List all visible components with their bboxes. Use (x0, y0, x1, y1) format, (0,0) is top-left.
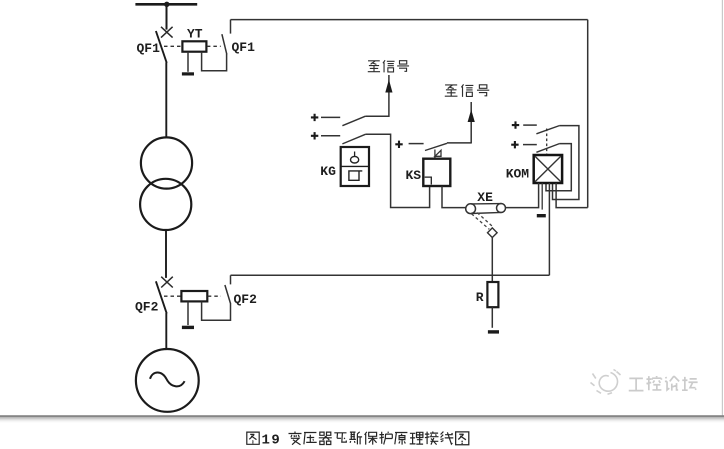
contact QF2 auxiliary blade (225, 285, 231, 303)
minus terminal below KOM (537, 214, 546, 217)
linkage dashes coil to QF2 aux (208, 295, 221, 297)
breaker QF1 cross mark (161, 27, 173, 38)
relay KOM box (534, 155, 562, 183)
svg-text:QF1: QF1 (232, 40, 256, 55)
caption figure number (247, 432, 259, 444)
panel right border (721, 0, 723, 416)
svg-text:XE: XE (477, 190, 493, 205)
wire coil right lead QF2 (202, 302, 231, 321)
wire KG contact 2 to KS coil (365, 134, 429, 207)
trip coil YT (182, 41, 206, 51)
plus terminal KOM row 2 (511, 141, 518, 148)
node junction dot on bus (164, 2, 169, 7)
wire KOM terminal 2 (minus lead) (541, 183, 543, 210)
wire KG contact 1 to signal arrow (365, 115, 389, 117)
breaker QF2 blade (156, 281, 167, 313)
text to-signal 1 (zhi xin hao) (368, 60, 409, 72)
wire down to KOM terminal 6 (587, 20, 589, 208)
breaker QF2 cross mark (161, 277, 173, 288)
svg-text:QF2: QF2 (135, 300, 159, 315)
wire plus to KOM contact 2 (523, 144, 537, 146)
trip coil of QF2 (181, 291, 207, 301)
plus terminal KG trip row (311, 132, 318, 139)
svg-text:R: R (476, 290, 484, 305)
KG float symbol (354, 152, 356, 157)
svg-text:QF2: QF2 (234, 292, 258, 307)
XE plug diamond (488, 228, 498, 238)
wire QF1 to transformer (165, 62, 167, 138)
XE open-link dashed lines (472, 213, 494, 230)
KG cup symbol (349, 171, 362, 180)
generator G circle (136, 349, 199, 412)
linkage dashes QF2 blade to trip coil (164, 295, 181, 297)
wire signal arrow 1 (388, 75, 390, 117)
wire KOM contact 2 to terminal 3 (546, 144, 571, 191)
wire QF1 aux fixed terminal (230, 20, 232, 34)
KG box divider (341, 165, 369, 167)
wire diamond to resistor R (491, 238, 493, 283)
wire plus to KOM contact 1 (523, 124, 537, 126)
wire KOM contact 1 to terminal 5 (553, 126, 579, 200)
transformer T winding 2 (140, 179, 191, 230)
linkage dashes YT to QF1 aux (207, 45, 221, 47)
linkage dashes QF1 blade to YT (164, 45, 182, 47)
contact KOM-2 blade (536, 144, 559, 153)
wire QF2 to generator (165, 313, 167, 350)
contact QF1 auxiliary blade (222, 34, 227, 54)
wire QF2 aux fixed terminal (230, 275, 232, 284)
watermark logo (591, 370, 621, 395)
plus terminal KG alarm row (311, 114, 318, 121)
bus bar (top supply) (135, 3, 197, 6)
arrowhead to signal 2 (468, 110, 475, 123)
svg-text:KG: KG (320, 164, 336, 179)
wire bus to QF1 (166, 4, 168, 29)
watermark text gongkong luntan (628, 375, 697, 390)
ground below YT (182, 72, 194, 75)
KS flag indicator (435, 150, 441, 159)
text to-signal 2 (zhi xin hao) (445, 84, 489, 96)
plus terminal KS row (395, 141, 402, 148)
wire coil left lead QF2 (187, 302, 189, 326)
signal relay KS box (423, 159, 450, 186)
wire KOM terminal 4 to QF2 trip bus (548, 183, 550, 275)
transformer T winding 1 (141, 137, 192, 188)
wire signal arrow 2 (470, 102, 472, 144)
connector XE right socket (497, 204, 506, 213)
KOM linkage dashes (546, 129, 548, 155)
wire transformer to QF2 (165, 230, 167, 278)
caption text: transformer gas protection principle wiring diagram (289, 432, 469, 445)
contact KG-1 blade (342, 116, 365, 126)
KOM box cross (535, 156, 561, 181)
minus terminal below R (488, 330, 499, 333)
KS inner notch (425, 177, 432, 184)
wire KOM terminal 1 to XE (506, 183, 539, 208)
wire R bottom lead (491, 307, 493, 328)
svg-text:YT: YT (187, 27, 203, 42)
wire plus to KG contact 1 (321, 116, 340, 118)
wire QF2 trip bus (horizontal) (231, 274, 550, 276)
connector XE link bars (471, 204, 502, 214)
arrowhead to signal 1 (385, 80, 392, 93)
connector XE left socket (466, 204, 476, 214)
ground below QF2 coil (182, 326, 194, 329)
wire KS contact to signal arrow 2 (447, 142, 471, 144)
contact KG-2 blade (342, 134, 365, 144)
wire KS right lead to XE (442, 186, 466, 207)
contact KS blade (425, 143, 447, 150)
wire plus to KS contact (409, 143, 424, 145)
contact KOM-1 blade (536, 126, 559, 134)
svg-text:KS: KS (406, 168, 422, 183)
wire YT right lead (202, 52, 227, 71)
svg-text:QF1: QF1 (137, 41, 161, 56)
panel bottom border line (0, 415, 724, 417)
wire QF1 trip bus (top horizontal) (231, 19, 588, 21)
svg-text:19: 19 (262, 432, 282, 448)
svg-text:KOM: KOM (506, 167, 530, 182)
wire YT left lead (187, 52, 189, 72)
plus terminal KOM row 1 (512, 121, 519, 128)
wire plus to KG contact 2 (321, 135, 340, 137)
resistor R (487, 282, 498, 307)
wire KOM terminal 6 to QF1 trip wire (556, 183, 588, 208)
breaker QF1 blade (156, 31, 167, 63)
gas relay KG box (341, 147, 369, 186)
generator sine symbol (150, 372, 185, 386)
